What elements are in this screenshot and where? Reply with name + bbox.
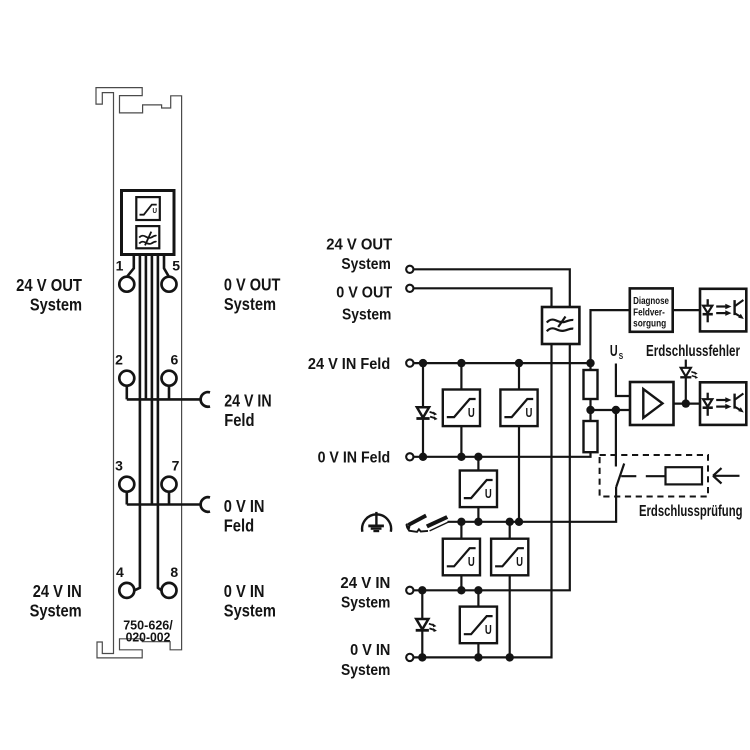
svg-text:System: System (30, 601, 82, 621)
resistor R1 (584, 370, 598, 399)
limiter box A (24V Feld) (443, 390, 480, 427)
junction dots 24V System bus (418, 586, 426, 594)
wire rail bus to switch (448, 487, 617, 522)
terminal circle 0V IN System (406, 654, 413, 661)
connector arc 24V Feld (201, 392, 210, 407)
svg-text:3: 3 (115, 458, 123, 474)
wire amplifier output (674, 403, 701, 405)
svg-text:0 V IN: 0 V IN (224, 581, 265, 601)
wire 0V OUT to filter (414, 288, 552, 307)
svg-text:System: System (341, 256, 390, 273)
svg-text:System: System (30, 294, 82, 314)
junction dots divider node (586, 406, 594, 414)
wire limiter B in/out (518, 363, 520, 522)
amplifier box (630, 382, 674, 425)
wire 24V OUT to filter (414, 269, 570, 307)
wire limiter F in/out (477, 590, 479, 657)
wire to terminal 4 (134, 255, 140, 591)
LED System (416, 619, 429, 630)
wire Us to amplifier (616, 364, 630, 397)
svg-text:020-002: 020-002 (126, 630, 171, 645)
wire limiter D in/out (460, 522, 462, 591)
wire 24V IN Feld bus (414, 362, 591, 364)
test resistor (666, 467, 703, 484)
resistor R2 (584, 421, 598, 452)
svg-text:0 V IN Feld: 0 V IN Feld (318, 450, 391, 467)
limiter box C (0V Feld) (460, 471, 497, 508)
terminal circle 0V IN Feld (406, 453, 413, 460)
svg-text:0 V OUT: 0 V OUT (336, 285, 392, 302)
function icon box U1 (122, 191, 175, 255)
svg-text:6: 6 (171, 352, 179, 368)
svg-text:1: 1 (116, 258, 124, 274)
LED Feld (416, 407, 429, 418)
svg-text:24 V IN: 24 V IN (224, 390, 271, 410)
LED Erdschlussfehler (680, 368, 698, 379)
svg-text:0 V IN: 0 V IN (350, 642, 390, 659)
wire filter to 0V IN System bus (414, 344, 552, 657)
svg-text:Feld: Feld (224, 516, 254, 536)
wire resistor R1 stubs (589, 363, 591, 410)
icon: surge limiter (136, 197, 160, 220)
wire to terminal 5 (164, 255, 169, 277)
svg-text:System: System (341, 662, 390, 679)
svg-text:5: 5 (172, 258, 180, 274)
terminal circle 24V OUT System (406, 266, 413, 273)
svg-text:24 V IN: 24 V IN (340, 575, 390, 592)
junction dots 0V System bus (418, 653, 426, 661)
svg-text:4: 4 (116, 564, 124, 580)
svg-text:0 V OUT: 0 V OUT (224, 274, 281, 294)
junction dots 0V Feld bus (419, 453, 427, 461)
wire 0V IN Feld bus (414, 452, 591, 457)
optocoupler 2 (700, 382, 746, 425)
terminal 5 (162, 277, 177, 292)
connector arc 0V Feld (201, 497, 210, 512)
0 V IN Feld bus wire (127, 492, 200, 505)
earth ground symbol (362, 514, 391, 531)
24 V IN Feld bus wire (127, 386, 200, 400)
wire resistor R2 stub (589, 410, 591, 421)
terminal circle 24V IN System (406, 587, 413, 594)
wire to 24V Feld bus (145, 255, 148, 400)
terminal 4 (119, 583, 134, 598)
limiter box D (24V System) (443, 539, 480, 576)
svg-text:Erdschlussfehler: Erdschlussfehler (646, 343, 740, 360)
wire node to switch (615, 410, 617, 467)
switch contact segments (621, 475, 665, 477)
dashed box Erdschlussprüfung (600, 455, 708, 497)
svg-text:U: U (153, 206, 158, 215)
svg-text:System: System (342, 306, 391, 323)
svg-text:System: System (224, 601, 276, 621)
svg-text:Erdschlussprüfung: Erdschlussprüfung (639, 503, 743, 520)
terminal 6 (162, 371, 177, 386)
terminal circle 0V OUT System (406, 285, 413, 292)
optocoupler 1 (700, 289, 746, 332)
terminal 8 (162, 583, 177, 598)
limiter box E (0V System) (491, 539, 528, 576)
limiter box F (24V System) (460, 607, 497, 644)
svg-text:24 V OUT: 24 V OUT (16, 275, 82, 295)
junction dot amplifier output (682, 399, 690, 407)
wire filter to 24V IN System bus (414, 344, 570, 590)
switch blade (616, 464, 624, 488)
svg-text:Feld: Feld (224, 410, 254, 430)
svg-text:S: S (619, 351, 624, 361)
svg-text:24 V IN: 24 V IN (33, 581, 82, 601)
wire limiter C in/out (477, 457, 479, 522)
wire node to amplifier (591, 409, 631, 411)
svg-text:System: System (341, 595, 390, 612)
terminal 2 (119, 371, 134, 386)
svg-text:7: 7 (172, 458, 180, 474)
terminal circle 24V IN Feld (406, 359, 413, 366)
wire LED System branch (421, 590, 423, 657)
wire to terminal 8 (158, 255, 162, 591)
wire LED Erdschlussfehler stub (685, 360, 687, 404)
svg-text:U: U (610, 343, 618, 360)
terminal 7 (162, 477, 177, 492)
terminal 3 (119, 477, 134, 492)
svg-text:24 V IN Feld: 24 V IN Feld (308, 356, 390, 373)
terminal 1 (119, 277, 134, 292)
DIN rail contact symbol (410, 516, 446, 526)
svg-text:Feldver-: Feldver- (633, 307, 665, 318)
svg-text:8: 8 (170, 564, 178, 580)
icon: filter (136, 226, 159, 248)
junction dots rail bus (457, 518, 465, 526)
svg-text:sorgung: sorgung (633, 319, 666, 330)
svg-text:0 V IN: 0 V IN (224, 496, 265, 516)
svg-text:System: System (224, 294, 276, 314)
filter box (542, 307, 579, 344)
wire limiter E in/out (509, 522, 511, 658)
svg-text:Diagnose: Diagnose (633, 296, 669, 307)
wire to Diagnose box (591, 310, 630, 363)
Diagnose Feldversorgung box (630, 288, 673, 331)
limiter box B (24V Feld) (500, 390, 537, 427)
wire limiter A in/out (460, 363, 462, 457)
junction dots 24V Feld bus (419, 359, 427, 367)
test probe arrow (713, 468, 740, 483)
svg-text:2: 2 (115, 352, 123, 368)
module body outline (96, 88, 182, 658)
wire to 0V Feld bus (151, 255, 154, 505)
svg-text:24 V OUT: 24 V OUT (326, 236, 392, 253)
wire LED Feld branch (422, 363, 424, 457)
wire Diagnose to optocoupler (673, 309, 700, 311)
wire to terminal 1 (127, 255, 134, 277)
